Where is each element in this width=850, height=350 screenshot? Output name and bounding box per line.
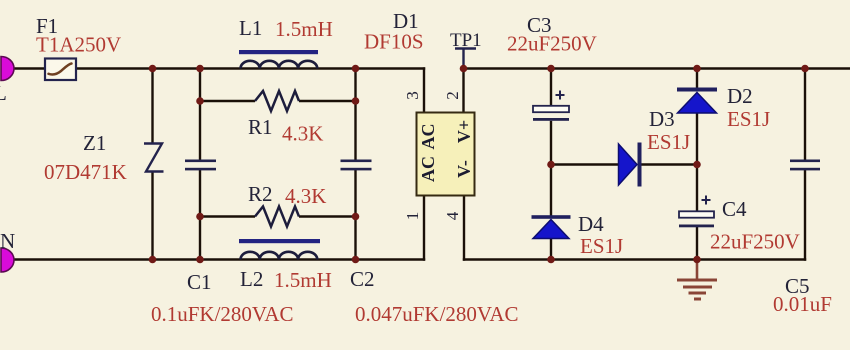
svg-text:0.01uF: 0.01uF <box>773 292 832 316</box>
capacitor C4 (electrolytic) <box>679 196 800 254</box>
svg-text:1: 1 <box>403 212 422 221</box>
connector N (AC neutral input) <box>0 229 15 272</box>
junction: TP1 node <box>460 65 468 73</box>
wire: D4 branch vertical <box>550 163 552 260</box>
svg-text:C2: C2 <box>350 267 375 291</box>
wire: C4 branch vertical <box>696 163 698 260</box>
test point TP1 <box>450 30 482 68</box>
svg-text:DF10S: DF10S <box>364 30 424 54</box>
wire: pin 4 vertical <box>463 196 465 261</box>
junction: top rail at C3 <box>547 65 555 73</box>
svg-text:3: 3 <box>403 91 422 100</box>
wire: pin 1 vertical <box>423 196 425 261</box>
svg-text:T1A250V: T1A250V <box>36 33 121 57</box>
bridge rectifier U-box D1 <box>364 9 475 196</box>
junction: top rail at C5 <box>801 65 809 73</box>
inductor L1 <box>239 16 333 69</box>
junction: bottom rail at ground <box>693 256 701 264</box>
svg-text:07D471K: 07D471K <box>44 160 127 184</box>
connector L (AC line input) <box>0 57 14 106</box>
svg-text:22uF250V: 22uF250V <box>507 32 597 56</box>
svg-text:C1: C1 <box>187 270 212 294</box>
resistor R1 <box>248 91 323 146</box>
svg-text:0.047uFK/280VAC: 0.047uFK/280VAC <box>355 302 519 326</box>
svg-text:V-: V- <box>454 160 474 178</box>
svg-text:Z1: Z1 <box>83 131 106 155</box>
svg-text:L1: L1 <box>239 16 262 40</box>
wire: pin 3 vertical <box>423 67 425 113</box>
svg-text:0.1uFK/280VAC: 0.1uFK/280VAC <box>151 302 294 326</box>
wire: top rail right (TP1 node to right edge) <box>464 67 850 69</box>
inductor L2 <box>239 239 332 292</box>
varistor Z1 <box>44 131 164 184</box>
capacitor C3 (electrolytic) <box>507 13 597 121</box>
svg-text:C4: C4 <box>722 197 747 221</box>
wire: R2 row horizontal <box>200 215 255 217</box>
svg-text:1.5mH: 1.5mH <box>274 268 332 292</box>
svg-text:L: L <box>0 81 7 105</box>
wire: C3 branch vertical <box>550 67 552 165</box>
svg-text:4: 4 <box>443 211 462 220</box>
svg-text:ES1J: ES1J <box>580 234 623 258</box>
svg-text:V+: V+ <box>454 120 474 143</box>
wire: C5 branch vertical <box>804 67 806 260</box>
diode D4 <box>532 212 624 258</box>
svg-text:R1: R1 <box>248 115 273 139</box>
wire: mid node horizontal (C3 to D3 to D2) <box>551 163 697 165</box>
junction: top rail at D2 <box>693 65 701 73</box>
junction: mid node at C3/D4 <box>547 161 555 169</box>
ground symbol <box>677 260 717 300</box>
junction: top rail at C1 <box>196 65 204 73</box>
svg-text:1.5mH: 1.5mH <box>275 17 333 41</box>
svg-text:22uF250V: 22uF250V <box>710 230 800 254</box>
junction: mid node at D2/C4 <box>693 161 701 169</box>
wire: top rail left (L input to bridge pin 3) <box>8 67 425 69</box>
svg-text:R2: R2 <box>248 182 273 206</box>
diode D3 <box>619 107 691 187</box>
svg-text:D2: D2 <box>727 84 753 108</box>
junction: bottom rail at C2 <box>352 256 360 264</box>
junction: bottom rail at C1 <box>196 256 204 264</box>
svg-text:D3: D3 <box>649 107 675 131</box>
capacitor C2 <box>341 160 519 327</box>
fuse F1 <box>36 14 121 80</box>
svg-text:L2: L2 <box>240 267 263 291</box>
svg-text:2: 2 <box>443 91 462 100</box>
wire: C1 branch vertical <box>199 67 201 260</box>
wire: R1 row horizontal <box>200 100 255 102</box>
svg-text:D4: D4 <box>578 212 604 236</box>
svg-text:4.3K: 4.3K <box>282 122 323 146</box>
junction: R1 left <box>196 97 204 105</box>
svg-text:ES1J: ES1J <box>727 107 770 131</box>
wire: D2 branch vertical <box>696 67 698 165</box>
wire: C2 branch vertical <box>354 67 356 260</box>
svg-text:4.3K: 4.3K <box>285 184 326 208</box>
wire: Z1 branch vertical <box>151 67 153 260</box>
svg-text:AC: AC <box>418 124 438 150</box>
junction: bottom rail at D4 <box>547 256 555 264</box>
junction: R2 left <box>196 213 204 221</box>
capacitor C1 <box>151 160 294 327</box>
junction: top rail at Z1 <box>149 65 157 73</box>
wire: pin 2 vertical <box>462 67 464 113</box>
junction: R1 right <box>352 97 360 105</box>
svg-text:AC: AC <box>418 156 438 182</box>
wire: bottom rail left (N input to bridge pin 1) <box>8 258 425 260</box>
junction: R2 right <box>352 213 360 221</box>
junction: bottom rail at Z1 <box>149 256 157 264</box>
diode D2 <box>677 84 770 131</box>
junction: top rail at C2 <box>352 65 360 73</box>
resistor R2 <box>248 182 326 227</box>
svg-text:ES1J: ES1J <box>647 130 690 154</box>
svg-text:TP1: TP1 <box>450 30 482 51</box>
capacitor C5 <box>773 160 832 317</box>
svg-text:N: N <box>0 229 15 253</box>
wire: bottom rail right (pin 4 to C5) <box>463 258 806 260</box>
